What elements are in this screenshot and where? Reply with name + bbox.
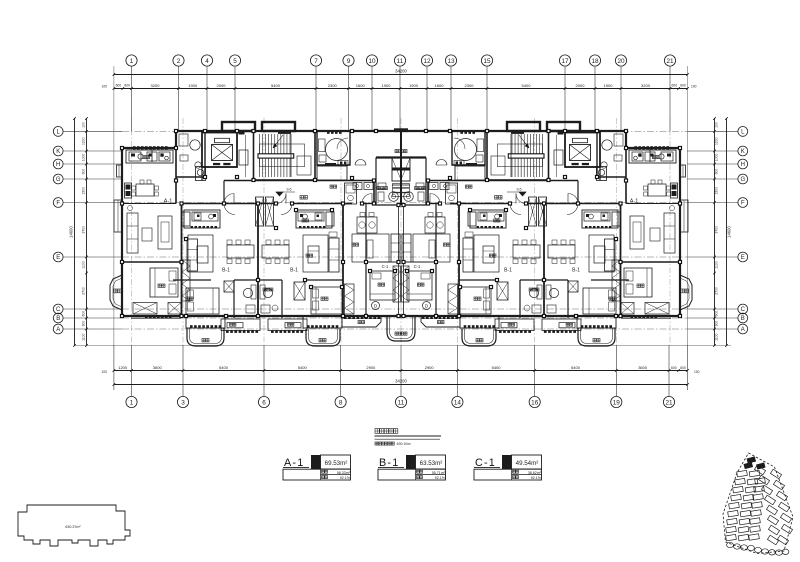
svg-text:900: 900 xyxy=(715,321,719,327)
svg-text:100: 100 xyxy=(715,122,719,128)
center top scalloped arcs xyxy=(355,160,366,166)
A-1 bathroom (upper, beside elevator) xyxy=(176,131,205,177)
grid bubble 12 (top) xyxy=(421,55,432,66)
svg-text:69.53m²: 69.53m² xyxy=(325,460,348,467)
grid bubble 19 (bottom) xyxy=(611,396,622,407)
svg-text:K: K xyxy=(56,149,60,155)
svg-text:1100: 1100 xyxy=(715,333,719,340)
center wall xyxy=(399,131,401,316)
svg-text:600: 600 xyxy=(671,366,677,370)
grid bubble 13 (top) xyxy=(445,55,456,66)
svg-text:16: 16 xyxy=(531,399,539,406)
svg-text:5400: 5400 xyxy=(298,365,308,370)
grid bubble F (left) xyxy=(53,198,63,208)
corridor door arcs xyxy=(224,194,372,204)
site map highlighted buildings (filled) xyxy=(743,456,765,469)
C-1 kitchen cabinet xyxy=(345,183,357,204)
svg-text:C-1: C-1 xyxy=(382,264,389,269)
grid bubble 15 (top) xyxy=(481,55,492,66)
grid bubble K (right) xyxy=(738,146,748,156)
svg-text:1000: 1000 xyxy=(81,154,85,162)
unit party walls xyxy=(176,131,366,316)
svg-text:C: C xyxy=(56,307,61,313)
C-1 dining table xyxy=(357,213,377,234)
B-1 kitchen counter xyxy=(296,210,334,228)
shaft between elevator and stair xyxy=(239,131,249,178)
svg-text:100: 100 xyxy=(101,370,107,374)
svg-text:B-1: B-1 xyxy=(222,268,230,274)
svg-text:1200: 1200 xyxy=(81,137,85,145)
svg-text:A: A xyxy=(741,327,745,333)
left B-1 bed xyxy=(186,288,219,314)
svg-text:13: 13 xyxy=(447,58,455,65)
svg-text:3600: 3600 xyxy=(638,365,648,370)
svg-text:G: G xyxy=(740,177,745,183)
B-1 sofa xyxy=(329,232,339,272)
grid bubble H (right) xyxy=(738,159,748,169)
svg-text:2000: 2000 xyxy=(576,83,586,88)
grid bubble B (left) xyxy=(53,313,63,323)
grid bubble K (left) xyxy=(53,146,63,156)
svg-text:E: E xyxy=(741,255,745,261)
svg-text:1000: 1000 xyxy=(715,154,719,162)
svg-text:1200: 1200 xyxy=(715,137,719,145)
svg-text:600: 600 xyxy=(81,311,85,317)
A-1 sofa group xyxy=(127,206,172,254)
C-1 bed xyxy=(366,262,400,300)
svg-text:11: 11 xyxy=(398,399,405,406)
A-1 dining table and chairs xyxy=(132,180,159,196)
svg-text:100: 100 xyxy=(81,122,85,128)
corridor walls xyxy=(182,181,375,204)
svg-text:5400: 5400 xyxy=(522,83,532,88)
subtitle note xyxy=(375,442,412,446)
site map trees/ovals xyxy=(727,542,734,547)
bottom dimension line (overall) xyxy=(113,345,689,390)
svg-text:1: 1 xyxy=(130,58,134,65)
svg-text:600: 600 xyxy=(672,84,678,88)
svg-text:600: 600 xyxy=(124,84,130,88)
building plan - left half xyxy=(110,122,402,346)
grid bubble 8 (bottom) xyxy=(335,396,346,407)
grid bubble 11 (bottom) xyxy=(395,396,406,407)
grid bubble 17 (top) xyxy=(559,55,570,66)
svg-text:21: 21 xyxy=(666,58,674,65)
grid bubble 9 (top) xyxy=(343,55,354,66)
grid bubble 7 (top) xyxy=(310,55,321,66)
left dimension line (segments) xyxy=(81,117,88,347)
window hatch on A-1 top wall xyxy=(133,146,168,149)
grid bubble 1 (bottom) xyxy=(126,396,137,407)
A-1 bedroom bed xyxy=(150,268,178,297)
B-1 right bedroom bay window xyxy=(303,316,342,328)
svg-text:20: 20 xyxy=(617,58,625,65)
grid bubble L (left) xyxy=(53,126,63,136)
top AC/flowerbox black rectangles xyxy=(222,122,401,132)
svg-text:92.1%: 92.1% xyxy=(531,476,542,480)
svg-text:14600: 14600 xyxy=(69,226,74,238)
svg-text:92.1%: 92.1% xyxy=(340,476,351,480)
svg-text:11: 11 xyxy=(397,58,404,65)
grid bubble G (right) xyxy=(738,174,748,184)
B-1 left bedroom bay window xyxy=(186,316,225,328)
svg-text:14: 14 xyxy=(454,399,462,406)
svg-text:9.6: 9.6 xyxy=(517,188,522,192)
svg-text:K: K xyxy=(741,149,745,155)
svg-text:14600: 14600 xyxy=(727,226,732,238)
svg-text:100: 100 xyxy=(101,85,107,89)
svg-text:5400: 5400 xyxy=(571,365,581,370)
grid bubble 2 (top) xyxy=(173,55,184,66)
grid bubble 11 (top) xyxy=(394,55,405,66)
left B-1 sofa xyxy=(187,239,198,271)
legend table B-1 xyxy=(378,455,446,480)
grid bubble 10 (top) xyxy=(366,55,377,66)
A-1 left bay window upper xyxy=(114,200,122,232)
A-1 kitchen side window bay xyxy=(117,165,123,177)
svg-text:2900: 2900 xyxy=(425,365,435,370)
svg-text:8: 8 xyxy=(339,399,343,406)
outer walls left half xyxy=(122,131,402,316)
svg-text:1200: 1200 xyxy=(118,365,128,370)
grid bubble 21 (top) xyxy=(664,55,675,66)
grid bubble E (left) xyxy=(53,252,63,262)
svg-text:2900: 2900 xyxy=(366,365,376,370)
svg-text:1500: 1500 xyxy=(715,187,719,195)
svg-text:A-1: A-1 xyxy=(164,199,172,205)
svg-text:3200: 3200 xyxy=(641,83,651,88)
svg-text:58.33m²: 58.33m² xyxy=(337,471,351,475)
right dimension line (overall 14600) xyxy=(725,117,731,347)
bathroom right of stairs xyxy=(317,131,350,180)
svg-text:1500: 1500 xyxy=(81,187,85,195)
svg-text:7: 7 xyxy=(314,58,318,65)
grid bubble 16 (bottom) xyxy=(529,396,540,407)
svg-text:1900: 1900 xyxy=(604,83,614,88)
top dimension line (overall) xyxy=(113,66,689,345)
svg-text:2700: 2700 xyxy=(715,287,719,295)
grid bubble L (right) xyxy=(738,126,748,136)
left dimension line (overall 14600) xyxy=(69,117,76,347)
grid bubble G (left) xyxy=(53,174,63,184)
svg-text:1900: 1900 xyxy=(188,83,198,88)
A-1 wardrobes with X xyxy=(133,303,181,315)
svg-text:34200: 34200 xyxy=(395,379,407,384)
grid bubble C (left) xyxy=(53,304,63,314)
svg-text:63.53m²: 63.53m² xyxy=(420,460,443,467)
svg-text:2700: 2700 xyxy=(81,287,85,295)
svg-text:5: 5 xyxy=(233,58,237,65)
A-1 kitchen counter and fixtures xyxy=(126,150,173,163)
svg-text:2300: 2300 xyxy=(328,83,338,88)
C-1 wardrobe zigzag at center wall xyxy=(393,266,401,302)
site map building footprints xyxy=(726,465,793,555)
left B-1 duct with X xyxy=(224,281,234,292)
vent shaft label xyxy=(395,150,398,153)
svg-text:1600: 1600 xyxy=(356,83,366,88)
svg-text:5400: 5400 xyxy=(219,365,229,370)
svg-text:A: A xyxy=(56,327,60,333)
svg-text:B-1: B-1 xyxy=(290,268,298,274)
C-1 center balcony half xyxy=(387,316,402,341)
svg-text:38.62m²: 38.62m² xyxy=(528,471,542,475)
svg-text:9: 9 xyxy=(347,58,351,65)
drawing title (simulated cjk) with underline xyxy=(375,429,442,440)
svg-text:A-1: A-1 xyxy=(630,199,638,205)
grid bubble 4 (top) xyxy=(201,55,212,66)
grid axis vertical lines (top grid) xyxy=(132,67,671,397)
AC platform strip left with label box xyxy=(221,319,260,333)
stairwell xyxy=(254,131,316,180)
B-1 dining table and chairs xyxy=(262,240,289,264)
svg-text:H: H xyxy=(56,162,60,168)
svg-text:15: 15 xyxy=(483,58,491,65)
svg-text::630.10m²: :630.10m² xyxy=(396,442,412,446)
svg-text:900: 900 xyxy=(81,321,85,327)
B-1 living rug and tv xyxy=(303,235,328,272)
svg-text:C: C xyxy=(741,307,746,313)
svg-text:3600: 3600 xyxy=(153,365,163,370)
grid bubble B (right) xyxy=(738,313,748,323)
A-1 cabinet dark element on left wall xyxy=(125,183,132,198)
svg-text:1: 1 xyxy=(130,399,134,406)
svg-text:49.54m²: 49.54m² xyxy=(516,460,539,467)
left B-1 unit (mirrored copy) xyxy=(173,204,258,319)
legend table A-1 xyxy=(283,455,351,480)
svg-text:2000: 2000 xyxy=(217,83,227,88)
bottom dimension line (segments) xyxy=(101,365,699,374)
svg-text:9.6: 9.6 xyxy=(287,188,292,192)
svg-text:100: 100 xyxy=(694,370,700,374)
B-1 right balcony (faceted) xyxy=(306,329,340,346)
B-1 wardrobe zigzag xyxy=(345,284,355,314)
svg-text:1100: 1100 xyxy=(81,261,85,268)
svg-text:5400: 5400 xyxy=(492,365,502,370)
grid bubble 5 (top) xyxy=(229,55,240,66)
unit labels (both halves, unmirrored) xyxy=(164,188,638,309)
svg-text:55.71m²: 55.71m² xyxy=(432,471,446,475)
legend table C-1 xyxy=(474,455,542,480)
svg-text:H: H xyxy=(741,162,745,168)
svg-text:900: 900 xyxy=(81,169,85,175)
svg-text:2: 2 xyxy=(177,58,181,65)
B-1 duct with X at bedroom corner xyxy=(294,282,305,300)
svg-text:600: 600 xyxy=(680,84,686,88)
svg-text:B: B xyxy=(56,316,60,322)
svg-text:630.37m²: 630.37m² xyxy=(65,525,81,529)
svg-text:12: 12 xyxy=(423,58,431,65)
duct shaft boxes between corridor and B1 xyxy=(256,197,274,226)
svg-text:F: F xyxy=(56,201,60,207)
svg-text:3200: 3200 xyxy=(151,83,161,88)
grid bubble 18 (top) xyxy=(589,55,600,66)
svg-text:17: 17 xyxy=(561,58,569,65)
grid bubble 3 (bottom) xyxy=(177,396,188,407)
svg-text:900: 900 xyxy=(715,169,719,175)
svg-text:10: 10 xyxy=(368,58,376,65)
B-1 bathroom xyxy=(258,280,282,318)
A-1 bottom window sill xyxy=(131,315,181,318)
A-1 interior partitions xyxy=(122,148,182,262)
level mark 9.6 in corridor xyxy=(276,192,295,196)
svg-text:21: 21 xyxy=(665,399,673,406)
grid bubble A (right) xyxy=(738,324,748,334)
svg-text:B: B xyxy=(741,316,745,322)
svg-text:6: 6 xyxy=(262,399,266,406)
C-1 shallow balcony xyxy=(342,316,381,327)
svg-text:3700: 3700 xyxy=(715,226,719,234)
grid bubble D leader inside plan xyxy=(372,302,380,310)
svg-text:5400: 5400 xyxy=(271,83,281,88)
B-1 left balcony (faceted) xyxy=(187,328,224,346)
AC platform strip right with label box xyxy=(268,319,307,333)
svg-text:B-1: B-1 xyxy=(572,268,580,274)
site key map boundary xyxy=(723,453,793,554)
svg-text:3700: 3700 xyxy=(81,226,85,234)
top dimension line (segments) xyxy=(101,83,696,90)
B-1 bedroom bed xyxy=(305,280,343,314)
B-1 entry door arc xyxy=(281,204,292,215)
svg-text:2300: 2300 xyxy=(465,83,475,88)
center vent shaft xyxy=(376,158,402,197)
right dimension line (segments) xyxy=(713,117,718,347)
room labels (simulated cjk) xyxy=(143,156,385,301)
svg-text:34200: 34200 xyxy=(395,69,407,74)
C-1 living rug sofa tv xyxy=(352,234,400,262)
C-1 bathroom at center core xyxy=(376,158,400,206)
svg-text:F: F xyxy=(741,201,745,207)
svg-text:1600: 1600 xyxy=(435,83,445,88)
svg-text:1100: 1100 xyxy=(715,261,719,268)
svg-text:C-1: C-1 xyxy=(414,264,421,269)
svg-text:600: 600 xyxy=(680,366,686,370)
svg-text:1100: 1100 xyxy=(81,333,85,340)
svg-text:1900: 1900 xyxy=(382,83,392,88)
svg-text:19: 19 xyxy=(613,399,621,406)
grid bubble H (left) xyxy=(53,159,63,169)
bottom-left key building outline xyxy=(18,505,130,546)
building plan - right half (mirrored) xyxy=(400,122,692,346)
svg-text:B-1: B-1 xyxy=(504,268,512,274)
grid bubble A (left) xyxy=(53,324,63,334)
grid bubble 1 (top) xyxy=(126,55,137,66)
A-1 left balcony bay xyxy=(110,275,122,310)
svg-text:600: 600 xyxy=(116,84,122,88)
svg-text:1900: 1900 xyxy=(409,83,419,88)
grid bubble 6 (bottom) xyxy=(258,396,269,407)
svg-text:E: E xyxy=(56,255,60,261)
svg-text:4: 4 xyxy=(205,58,209,65)
svg-text:G: G xyxy=(56,177,61,183)
grid bubble F (right) xyxy=(738,198,748,208)
corridor label xyxy=(300,196,303,200)
grid bubble 20 (top) xyxy=(615,55,626,66)
left B-1 wardrobe zigzag xyxy=(182,260,190,301)
pipe shaft cluster right of corridor xyxy=(353,183,373,190)
grid bubble 14 (bottom) xyxy=(452,396,463,407)
svg-text:100: 100 xyxy=(691,85,697,89)
grid bubble C (right) xyxy=(738,304,748,314)
grid bubble 21 (bottom) xyxy=(663,396,674,407)
grid bubble E (right) xyxy=(738,252,748,262)
svg-text:18: 18 xyxy=(591,58,599,65)
grid axis horizontal lines (letters) xyxy=(64,131,738,345)
structural column markers xyxy=(120,129,401,318)
svg-text:92.1%: 92.1% xyxy=(435,476,446,480)
elevator shaft xyxy=(196,133,238,181)
svg-text:600: 600 xyxy=(715,311,719,317)
svg-text:3: 3 xyxy=(181,399,185,406)
